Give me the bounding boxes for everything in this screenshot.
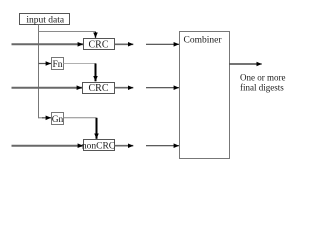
box: input data — [20, 14, 70, 26]
wire: Fn output to drop — [64, 63, 97, 65]
svg-text:Combiner: Combiner — [184, 36, 223, 46]
wire: arrow down into CRC1 — [95, 32, 97, 38]
wire: drop into nonCRC — [96, 118, 98, 139]
svg-text:One or more: One or more — [240, 73, 285, 83]
wire: nonCRC output — [115, 145, 134, 147]
wire: Gn output to drop — [64, 117, 97, 119]
wire: branch to CRC1 top — [39, 32, 96, 34]
svg-text:final digests: final digests — [240, 82, 284, 92]
wire: combiner input row 3 — [146, 145, 179, 147]
wire: elbow into Gn — [39, 117, 45, 119]
svg-text:input data: input data — [26, 15, 65, 25]
wire: trunk from input data box — [38, 25, 40, 119]
wire: main input line row 3 — [12, 145, 84, 147]
box: Fn — [52, 58, 64, 70]
svg-text:nonCRC: nonCRC — [82, 142, 115, 152]
wire: combiner input row 2 — [146, 87, 179, 89]
wire: CRC2 output — [115, 87, 134, 89]
svg-text:CRC: CRC — [88, 83, 108, 94]
wire: drop into CRC2 — [95, 64, 97, 82]
label: one or more final digests — [240, 73, 285, 93]
svg-text:CRC: CRC — [88, 40, 108, 51]
svg-text:Gn: Gn — [52, 115, 64, 125]
wire: main input line row 1 — [12, 43, 84, 45]
wire: arrow into Fn — [39, 63, 52, 65]
wire: combiner output — [230, 63, 262, 65]
box: CRC2 — [83, 83, 115, 95]
box: CRC1 — [84, 39, 115, 51]
box: nonCRC — [82, 140, 115, 152]
box: Gn — [52, 113, 64, 125]
wire: CRC1 output — [115, 43, 134, 45]
wire: combiner input row 1 — [146, 43, 179, 45]
svg-text:Fn: Fn — [52, 60, 62, 70]
box: Combiner — [180, 32, 230, 159]
wire: main input line row 2 — [12, 87, 83, 89]
